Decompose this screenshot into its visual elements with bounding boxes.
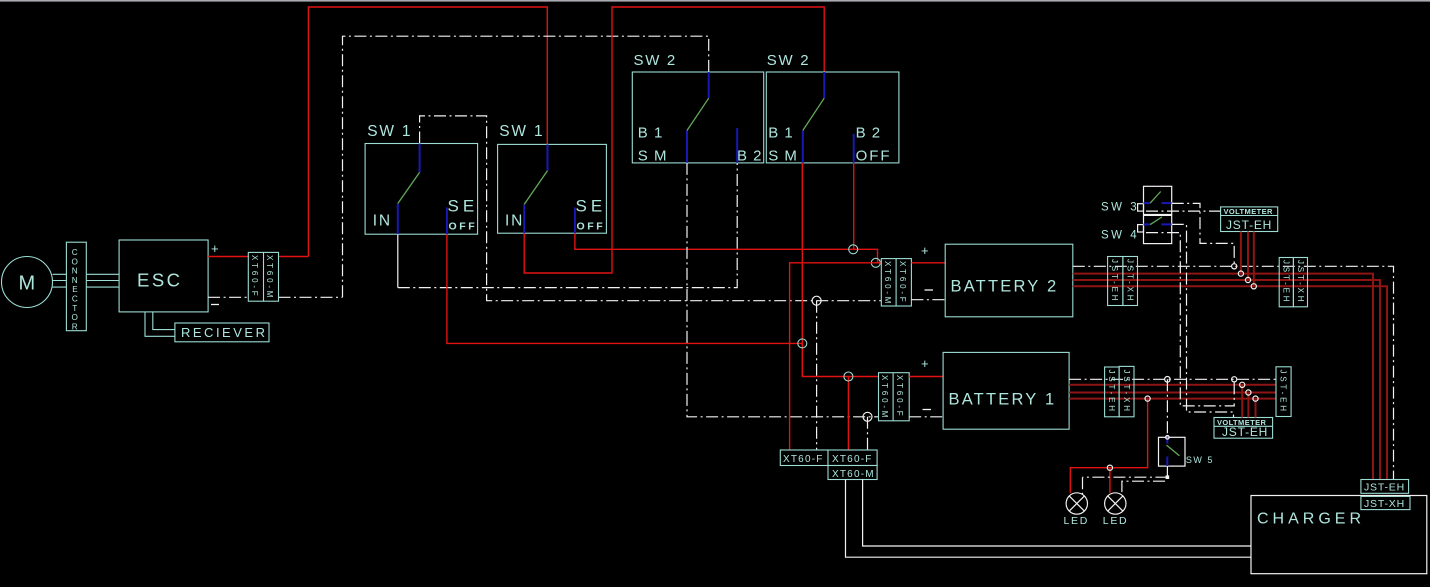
switch blade SW1b (524, 171, 547, 205)
node: white junction battery1 minus branch (863, 412, 872, 421)
connector XT60-F parallel charge lead 1 (780, 450, 828, 466)
voltmeter VOLTMETER (battery1) (1214, 418, 1273, 439)
svg-text:JST-XH: JST-XH (1122, 370, 1131, 414)
wire: voltmeter2 stub 3 (1255, 399, 1257, 418)
switch blade SW2b (803, 98, 824, 130)
connector JST-XH (battery2) (1123, 257, 1138, 306)
wire: dark red battery1 balance line 2 (1069, 392, 1276, 394)
svg-text:XT60-M: XT60-M (265, 255, 274, 300)
label - battery2 (925, 289, 934, 291)
pin SW1b IN (523, 204, 525, 233)
wire: dash-dot SW1a top pin loop to battery2 minus (420, 116, 882, 301)
svg-text:XT60-F: XT60-F (898, 261, 907, 304)
wire: red LED feed from battery1 balance (1070, 399, 1147, 493)
pin SW4 right (1161, 223, 1171, 225)
wire: ESC - dash-dot to XT60 (208, 296, 342, 298)
wire: voltmeter stub 2 (1247, 232, 1249, 281)
lamp LED2 (1105, 493, 1126, 514)
pin SW1a SE (446, 207, 448, 234)
svg-text:M: M (19, 273, 36, 295)
node: junction SW3 on battery2 minus (1232, 264, 1237, 269)
battery BATTERY 1 (943, 352, 1069, 429)
svg-text:JST-EH: JST-EH (1222, 425, 1268, 439)
wire: white parallel lead to charger (upper) (863, 480, 1251, 547)
svg-text:JST-XH: JST-XH (1364, 498, 1405, 510)
connector JST-EH (battery1) (1105, 367, 1120, 417)
node: junction battery1 plus (844, 372, 853, 381)
label - (ESC negative) (211, 304, 219, 306)
node: SW5 top terminal dot (1166, 436, 1170, 440)
wire: motor phase lines to ESC (53, 274, 120, 287)
wire: dash-dot SW5 to LED returns (1083, 466, 1168, 494)
svg-text:XT60-M: XT60-M (832, 469, 875, 480)
wire: red branch down to XT60-F parallel box2 (847, 377, 849, 451)
svg-text:+: + (921, 356, 929, 371)
wire: red branch to LED2 (1109, 468, 1111, 493)
switch blade SW1a (398, 172, 420, 203)
wire: dash-dot SW3 second terminal to voltmeter (1146, 210, 1221, 212)
pin SW2b OFF (853, 134, 855, 163)
svg-text:LED: LED (1064, 515, 1090, 527)
node: voltmeter tap 2 (1245, 277, 1250, 282)
pin SW2a B2 (736, 128, 738, 163)
wire: red SW2b OFF pin down to node (853, 163, 855, 249)
node: white junction battery2 minus branch (812, 296, 821, 305)
svg-text:OFF: OFF (856, 148, 892, 165)
node: voltmeter tap 1 (1238, 271, 1243, 276)
node: voltmeter2 tap 3 (1253, 396, 1258, 401)
svg-text:LED: LED (1103, 515, 1129, 527)
ESC U1 (119, 240, 208, 312)
wire: voltmeter2 stub 1 (1241, 385, 1243, 418)
pin SW2a SM (686, 131, 688, 163)
svg-text:VOLTMETER: VOLTMETER (1224, 207, 1273, 216)
svg-text:BATTERY 2: BATTERY 2 (951, 278, 1059, 296)
wire: dash-dot XT60 to battery2 minus (911, 299, 945, 301)
svg-text:SE: SE (448, 197, 479, 216)
connector XT60-M/XT60-F (battery1) (879, 373, 910, 421)
wire: dark red battery2 balance line 3 (1073, 286, 1387, 479)
svg-text:IN: IN (373, 213, 392, 230)
svg-text:JST-EH: JST-EH (1226, 218, 1272, 232)
reciever RX1 (175, 323, 269, 342)
switch SW5 (1159, 437, 1186, 466)
wire: dash-dot branch down to XT60-F parallel box2 (867, 417, 869, 450)
svg-text:SW 4: SW 4 (1101, 230, 1139, 242)
svg-text:SE: SE (576, 197, 607, 216)
svg-text:RECIEVER: RECIEVER (181, 325, 267, 340)
wire: dark red battery2 balance line 1 (1073, 274, 1373, 480)
switch SW4 (1144, 215, 1172, 243)
node: junction SW4 on battery1 minus (1232, 377, 1237, 382)
switch SW3 (1144, 186, 1172, 214)
node: SW5 tap on battery1 minus (1165, 377, 1171, 383)
wire: red XT60 to battery1 plus (909, 376, 943, 378)
svg-text:BATTERY 1: BATTERY 1 (949, 391, 1057, 409)
switch blade SW4 (1150, 217, 1162, 225)
node: voltmeter2 tap 2 (1246, 390, 1251, 395)
window top edge artifact (0, 0, 1430, 2)
switch SW2a (632, 72, 763, 163)
pin SW1a common (top) (419, 144, 421, 173)
svg-text:XT60-M: XT60-M (880, 375, 889, 420)
pin SW1b common (top) (547, 144, 549, 170)
svg-text:XT60-F: XT60-F (250, 255, 259, 298)
svg-text:ESC: ESC (137, 270, 183, 291)
wire: white parallel lead to charger (lower) (846, 480, 1252, 558)
connector XT60-F/XT60-M (ESC) (248, 252, 278, 301)
wire: dash-dot XT60 to battery1 minus (909, 416, 943, 418)
svg-text:CHARGER: CHARGER (1257, 511, 1365, 528)
wire: voltmeter stub 1 (1240, 232, 1242, 274)
label - battery1 (923, 409, 932, 411)
svg-text:JST-EH: JST-EH (1279, 370, 1288, 414)
wire: red charge line to bottom XT60-F (790, 263, 882, 450)
wire: ESC + red to XT60 (208, 256, 308, 258)
svg-text:SW 2: SW 2 (634, 52, 677, 69)
switch blade SW2a (687, 98, 709, 130)
connector XT60-M/XT60-F (battery2) (881, 259, 911, 306)
wire: voltmeter stub 3 (1253, 232, 1255, 287)
charger CHG1 (1251, 496, 1427, 574)
svg-text:XT60-F: XT60-F (783, 454, 824, 465)
svg-text:JST-EH: JST-EH (1110, 259, 1119, 303)
connector XT60-F parallel charge lead 2 (828, 450, 877, 466)
wire: dash-dot SW3 to battery2 minus node (1172, 203, 1235, 266)
battery BATTERY 2 (945, 244, 1073, 317)
wire: ESC to reciever (145, 312, 175, 336)
connector JST-EH (charger) (1361, 480, 1409, 494)
svg-text:JST-XH: JST-XH (1126, 259, 1135, 303)
svg-text:OFF: OFF (577, 220, 606, 232)
connector JST-EH (battery1 extension) (1276, 367, 1291, 417)
svg-text:SW 1: SW 1 (367, 123, 412, 140)
wire: dark red battery1 balance line 1 (1069, 384, 1276, 386)
svg-text:XT60-M: XT60-M (883, 261, 892, 306)
wire: red SW1b IN to SW2b top pin (524, 7, 824, 273)
pin SW5 bottom (1166, 457, 1168, 467)
wire: dash-dot battery2 minus balance to charger JST (1073, 266, 1394, 479)
pin SW2b common (top) (823, 72, 825, 98)
connector JST-XH (charger) (1361, 496, 1410, 509)
connector JST-EH (battery2 extension) (1279, 258, 1293, 307)
pin SW4 left (1144, 223, 1151, 225)
svg-text:SW 3: SW 3 (1101, 202, 1139, 214)
wire: red SW1a SE down and right to node (447, 234, 802, 343)
wire: red loop ESC+ to SW1b top pin (308, 7, 547, 257)
svg-text:IN: IN (505, 213, 524, 230)
connector JST-XH (battery2 extension) (1293, 258, 1307, 307)
node: LED feed tap (1145, 396, 1150, 401)
pin SW2a common (top) (708, 72, 710, 98)
node: SW5 bottom junction dot (1166, 475, 1170, 479)
node: LED branch (1107, 465, 1112, 470)
wire: dash-dot branch down to XT60-F parallel box (816, 301, 818, 450)
svg-text:B 2: B 2 (856, 125, 882, 142)
svg-text:JST-EH: JST-EH (1364, 482, 1405, 494)
wire: red XT60 to battery2 plus (911, 262, 945, 264)
svg-text:CONNECTOR: CONNECTOR (72, 248, 79, 331)
node: junction SE wire / SW2b OFF (849, 245, 858, 254)
wire: dark red battery1 balance line 3 (1069, 398, 1276, 400)
svg-text:B 1: B 1 (638, 125, 664, 142)
voltmeter VOLTMETER (battery2) (1221, 207, 1278, 232)
node: junction battery1 plus chain (798, 339, 807, 348)
pin SW5 top (1166, 437, 1168, 443)
pin SW1a IN (397, 204, 399, 235)
wire: dash-dot SW2a SM down to battery1 minus (687, 163, 879, 417)
wire: dash-dot battery1 minus to SW5 (1166, 379, 1168, 437)
pin SW3 right (1161, 202, 1171, 204)
node: junction battery2 plus (871, 258, 880, 267)
connector JST-XH (battery1) (1119, 366, 1134, 416)
svg-text:OFF: OFF (449, 220, 478, 232)
wire: white SW4 to battery1 minus node (1172, 224, 1234, 417)
node: voltmeter2 tap 1 (1240, 382, 1245, 387)
switch SW1a (365, 144, 478, 235)
svg-text:SW 2: SW 2 (767, 52, 810, 69)
svg-text:SW 5: SW 5 (1186, 455, 1214, 465)
motor M1 (2, 257, 53, 308)
svg-text:S M: S M (638, 148, 668, 165)
wire: dark red battery2 balance line 2 (1073, 280, 1380, 480)
svg-text:S M: S M (768, 148, 798, 165)
wire: red SW2b SM down to battery1 plus node (802, 163, 878, 377)
switch SW2b (766, 72, 899, 163)
wire: red SW1b SE long to battery2 plus (575, 233, 881, 263)
svg-text:XT60-F: XT60-F (832, 454, 873, 465)
svg-text:+: + (211, 241, 219, 256)
connector JST-EH (battery2) (1108, 257, 1123, 306)
wire: dash-dot battery1 minus balance (1069, 378, 1276, 380)
svg-text:B 1: B 1 (768, 125, 794, 142)
svg-text:B 2: B 2 (737, 148, 763, 165)
svg-text:XT60-F: XT60-F (895, 375, 904, 418)
pin SW2b SM (802, 131, 804, 163)
wire: SW1a IN to SW2a B2 pin (397, 234, 399, 287)
wire: voltmeter2 stub 2 (1247, 393, 1249, 418)
node: voltmeter tap 3 (1251, 284, 1256, 289)
switch blade SW5 (1167, 445, 1180, 456)
pin SW3 left (1144, 202, 1151, 204)
svg-text:JST-EH: JST-EH (1107, 370, 1116, 414)
lamp LED1 (1066, 493, 1087, 514)
switch blade SW3 (1150, 192, 1161, 204)
connector XT60-M parallel charge lead (828, 466, 877, 480)
svg-text:SW 1: SW 1 (499, 123, 544, 140)
connector CONNECTOR (66, 242, 86, 331)
svg-text:JST-EH: JST-EH (1282, 260, 1291, 304)
switch SW1b (498, 144, 607, 233)
pin SW1b SE (574, 207, 576, 233)
svg-text:+: + (921, 243, 929, 258)
wire: dash-dot ESC- to SW2a top pin (343, 36, 709, 297)
svg-text:JST-XH: JST-XH (1296, 260, 1305, 304)
wire: dash-dot SW4 second terminal to voltmeter2 (1146, 233, 1234, 406)
